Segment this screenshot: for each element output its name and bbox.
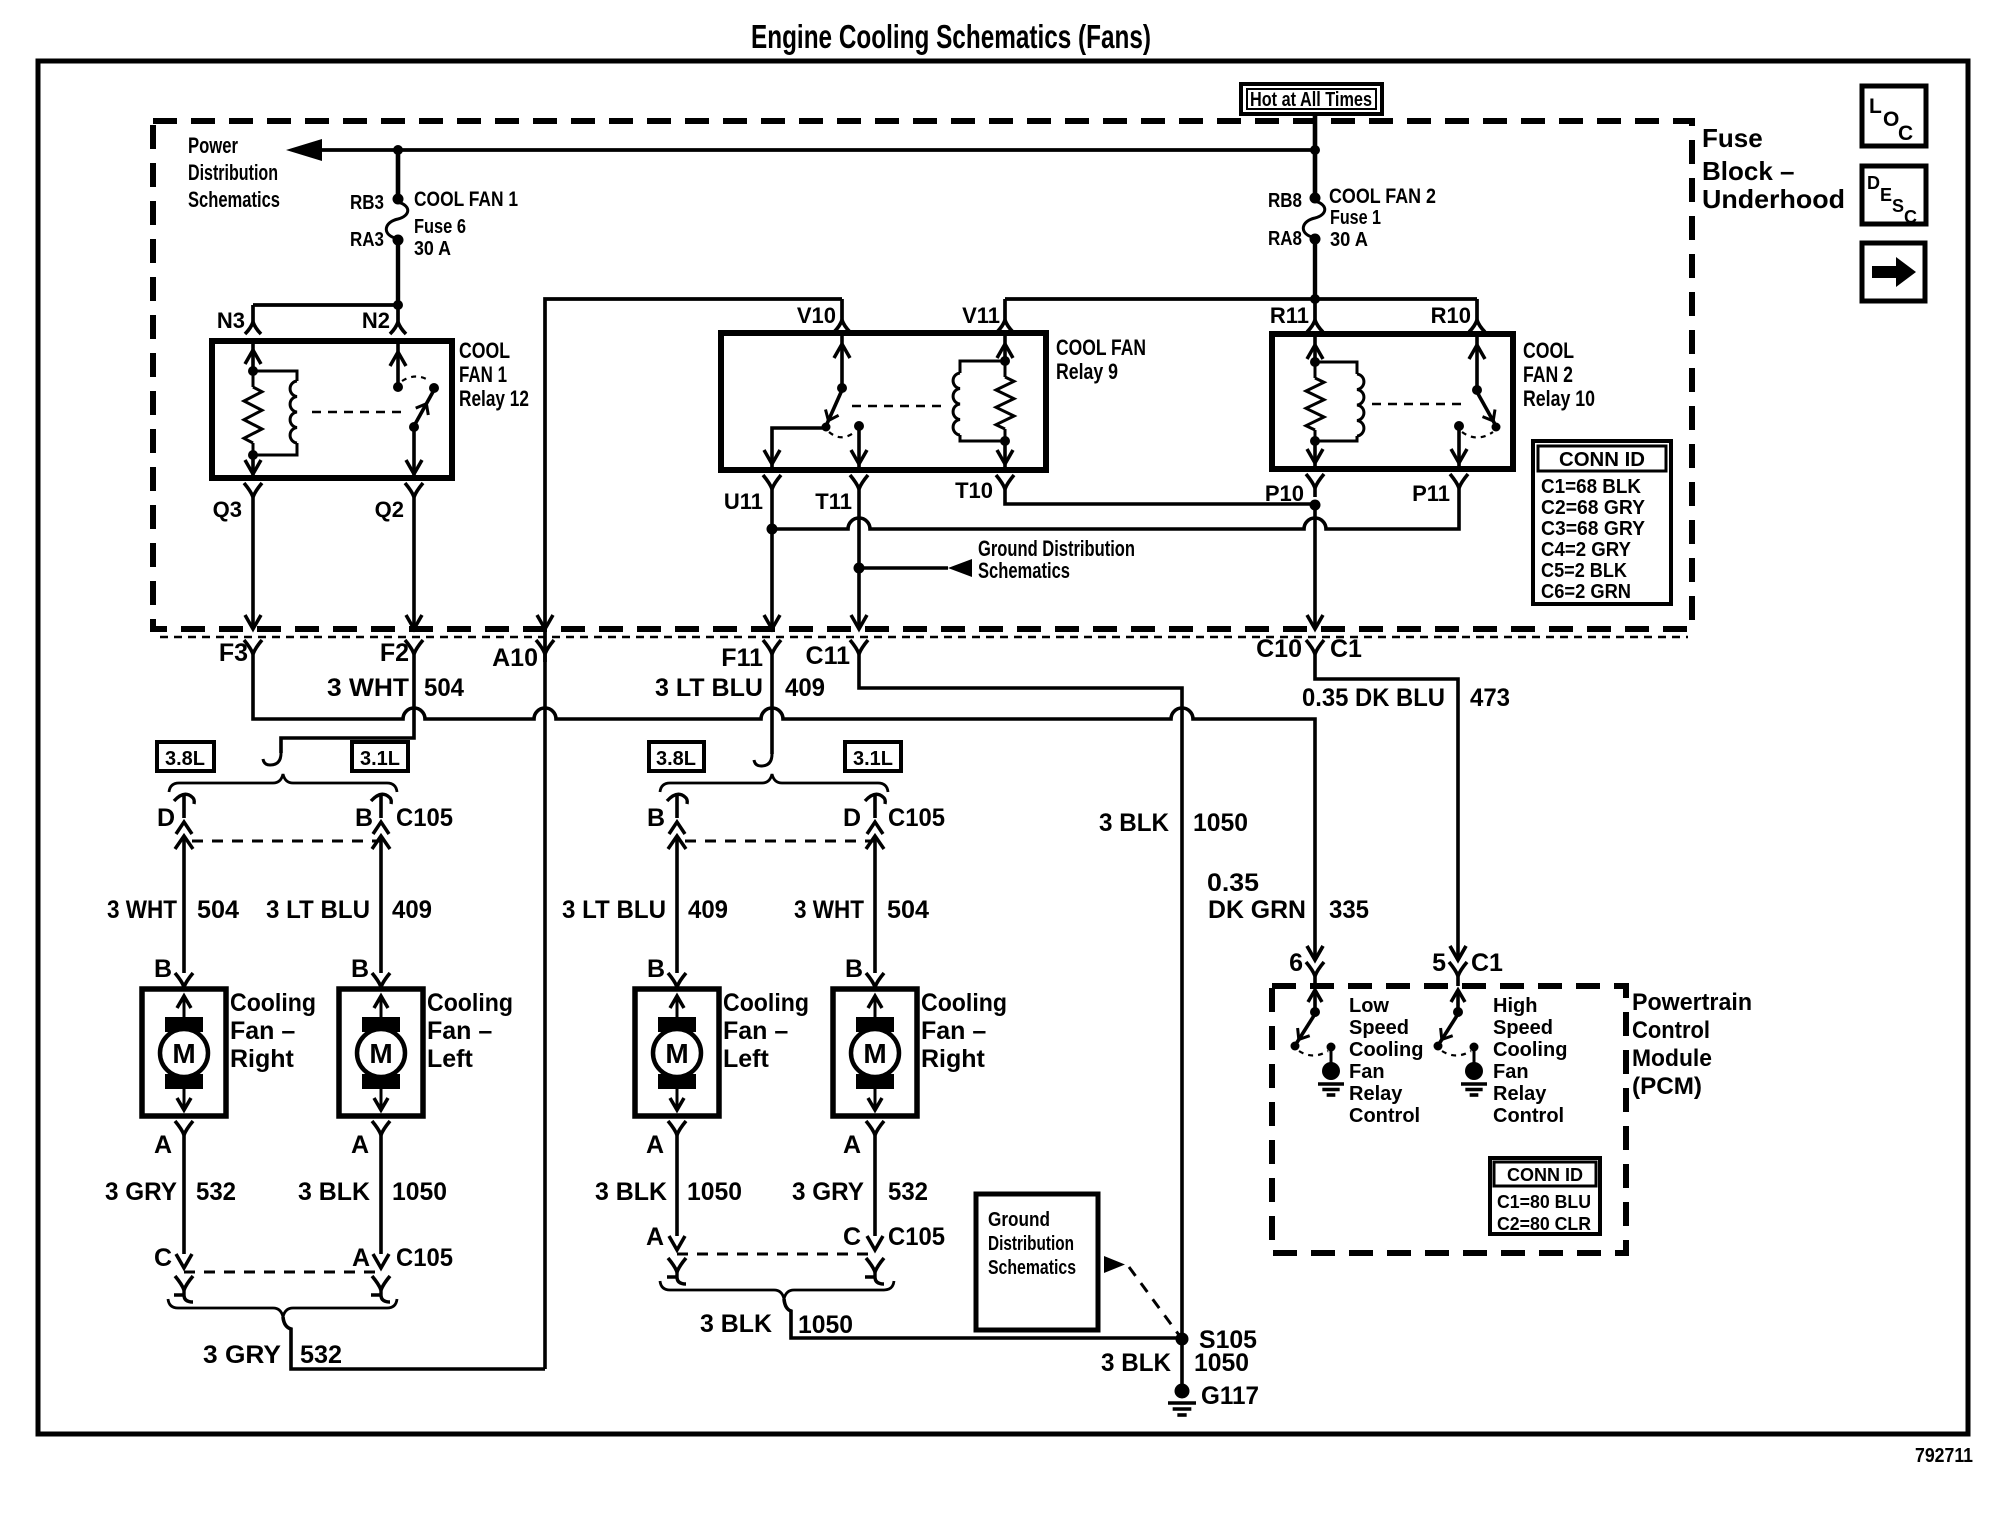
motor M Cooling Fan - Right (x=875): [833, 989, 917, 1116]
svg-text:A: A: [352, 1244, 370, 1272]
wire U11 to P11 with hops over T11 and P10: [772, 497, 1459, 529]
relay 12 switch NO contact: [429, 383, 439, 393]
svg-text:Distribution: Distribution: [988, 1233, 1074, 1255]
wire motor2 A down to C105 A: [379, 1139, 383, 1254]
relay 12 resistor: [252, 371, 255, 387]
svg-text:3 LT BLU: 3 LT BLU: [655, 674, 763, 702]
splice hook (F2 branch): [263, 753, 281, 765]
wire F2 to engine splice branch: [281, 662, 414, 753]
svg-text:532: 532: [196, 1178, 236, 1206]
svg-text:532: 532: [300, 1341, 342, 1369]
svg-text:3 GRY: 3 GRY: [203, 1341, 281, 1369]
splice brace (lower left group): [168, 1299, 397, 1317]
relay 9 resistor: [1004, 361, 1007, 377]
relay 9 coil: [960, 361, 1005, 373]
wire Q3 down to F3: [251, 503, 255, 629]
pin Q3: [244, 483, 262, 497]
wire stubs to relay top pins: [840, 299, 844, 320]
wire motor3 A down to C105 A: [675, 1139, 679, 1236]
svg-text:C105: C105: [396, 804, 453, 832]
pin U11: [763, 475, 781, 489]
PCM low speed fan relay control switch: [1308, 990, 1322, 1002]
motor M Cooling Fan - Right (x=184): [142, 989, 226, 1116]
svg-text:A: A: [843, 1131, 861, 1159]
connector C105 pin D (right group): [865, 794, 885, 804]
svg-text:Schematics: Schematics: [188, 187, 280, 212]
wire C105 B to left fan motor B (col 3): [675, 836, 679, 973]
svg-text:P11: P11: [1412, 481, 1450, 506]
relay 12 coil: [253, 371, 297, 381]
svg-text:3 GRY: 3 GRY: [792, 1178, 864, 1206]
svg-text:C10: C10: [1256, 635, 1302, 663]
svg-text:Block –: Block –: [1702, 156, 1795, 186]
svg-text:R11: R11: [1270, 303, 1309, 328]
pin N3: [245, 322, 261, 334]
svg-text:T11: T11: [815, 489, 852, 514]
wire C105 B to left fan motor B: [379, 836, 383, 973]
svg-text:1050: 1050: [687, 1178, 742, 1206]
svg-text:N3: N3: [217, 308, 245, 333]
pin T10: [996, 475, 1014, 489]
relay 12 coil branch input arrow: [251, 341, 255, 371]
relay 9 coil output arrow to T10: [1003, 441, 1007, 470]
ground control bus: F3 to PCM pin 6 with hops at F2, A10, F11, splice column: [253, 662, 1315, 960]
connector C105 pin D (left group): [174, 794, 194, 804]
connector pin C11: [850, 640, 868, 654]
svg-text:F3: F3: [219, 639, 248, 667]
engine option brace (left group): [169, 774, 397, 792]
relay 10 switch travel arc (dashed): [1462, 432, 1493, 438]
svg-text:Low: Low: [1349, 995, 1389, 1017]
svg-text:Left: Left: [723, 1045, 770, 1073]
relay 12 coil-switch link (dashed): [312, 411, 404, 413]
relay 12 coil top junction: [248, 366, 258, 376]
svg-text:O: O: [1883, 108, 1899, 131]
svg-text:FAN 1: FAN 1: [459, 362, 507, 387]
svg-text:504: 504: [887, 896, 929, 924]
relay 10 coil input from R11: [1313, 334, 1317, 362]
svg-text:C105: C105: [396, 1244, 453, 1272]
svg-text:CONN ID: CONN ID: [1559, 449, 1645, 471]
relay 9 switch NC contact: [854, 421, 864, 431]
svg-text:3.1L: 3.1L: [853, 748, 893, 770]
fuse block connector C1 boundary (thin dashed): [160, 636, 1688, 638]
svg-text:RB3: RB3: [350, 192, 384, 214]
svg-text:Fan –: Fan –: [921, 1017, 986, 1045]
svg-text:Schematics: Schematics: [978, 558, 1070, 583]
svg-text:CONN ID: CONN ID: [1507, 1165, 1583, 1185]
svg-text:High: High: [1493, 995, 1537, 1017]
svg-text:A: A: [646, 1131, 664, 1159]
svg-text:3 BLK: 3 BLK: [1099, 809, 1169, 837]
svg-text:Relay 10: Relay 10: [1523, 386, 1595, 411]
wire A10 column down to splice return: [543, 662, 547, 1369]
svg-text:C2=68 GRY: C2=68 GRY: [1541, 497, 1646, 519]
svg-text:D: D: [1867, 173, 1880, 193]
svg-text:Fuse: Fuse: [1702, 123, 1763, 153]
svg-text:0.35: 0.35: [1207, 869, 1259, 897]
relay 12 switch pivot: [409, 422, 419, 432]
junction T10/P10: [1310, 500, 1321, 511]
svg-text:FAN 2: FAN 2: [1523, 362, 1573, 387]
wire motor4 A down to C105 C: [873, 1139, 877, 1236]
connector C105 interface (left, dashed): [192, 840, 381, 843]
relay 9 switch blade: [826, 390, 842, 426]
wire C105 D to right fan motor B: [182, 836, 186, 973]
pin P10: [1306, 474, 1324, 488]
relay 9 coil input from V11: [1003, 333, 1007, 361]
svg-text:Cooling: Cooling: [1493, 1039, 1567, 1061]
svg-text:Relay 9: Relay 9: [1056, 359, 1118, 384]
connector pin A10: [536, 640, 554, 654]
svg-text:M: M: [172, 1038, 195, 1069]
svg-text:Left: Left: [427, 1045, 474, 1073]
splice hook (F11 branch): [754, 754, 772, 766]
svg-text:Relay: Relay: [1493, 1083, 1547, 1105]
junction at relay rail: [1310, 294, 1320, 304]
svg-text:Fuse 1: Fuse 1: [1330, 207, 1381, 229]
svg-text:Control: Control: [1493, 1105, 1564, 1127]
svg-text:S: S: [1892, 196, 1904, 216]
wire splice to A10 column 3 GRY 532: [283, 1317, 545, 1369]
lower left C105 outgoing forks: [175, 1276, 193, 1290]
svg-text:(PCM): (PCM): [1632, 1073, 1702, 1100]
wire rail V11 to R10: [1005, 297, 1477, 301]
svg-text:M: M: [369, 1038, 392, 1069]
connector pin F3: [244, 640, 262, 654]
connector C105 pin A (lower left group): [373, 1254, 389, 1268]
svg-text:409: 409: [392, 896, 432, 924]
motor M Cooling Fan - Left (x=677): [635, 989, 719, 1116]
wire rail A10 riser to V10: [545, 299, 842, 662]
relay 10 switch common from R10: [1475, 334, 1479, 390]
svg-text:1050: 1050: [798, 1311, 853, 1339]
svg-text:D: D: [843, 804, 861, 832]
wire C11 to S105 splice column 3 BLK 1050: [859, 662, 1182, 1385]
LOC legend box: [1862, 86, 1926, 146]
svg-text:C11: C11: [806, 642, 851, 670]
wire T11 down to C11: [857, 497, 861, 629]
svg-text:B: B: [355, 804, 373, 832]
relay 9 switch output to U11: [772, 428, 826, 470]
svg-text:COOL: COOL: [1523, 338, 1574, 363]
connector pin F11: [763, 640, 781, 654]
svg-text:Q2: Q2: [375, 497, 404, 522]
svg-text:A: A: [646, 1223, 664, 1251]
svg-text:Fan –: Fan –: [723, 1017, 788, 1045]
svg-text:Fuse 6: Fuse 6: [414, 216, 466, 238]
engine option label 3.1L (right): [845, 742, 901, 771]
relay 10 coil output arrow to P10: [1313, 441, 1317, 469]
relay 10 resistor: [1314, 362, 1317, 378]
svg-text:Cooling: Cooling: [723, 989, 809, 1017]
svg-text:RA8: RA8: [1268, 228, 1302, 250]
svg-text:F2: F2: [380, 639, 409, 667]
svg-text:532: 532: [888, 1178, 928, 1206]
svg-text:335: 335: [1329, 896, 1369, 924]
svg-text:3 GRY: 3 GRY: [105, 1178, 177, 1206]
splice S105: [1176, 1333, 1189, 1346]
PCM pin 6: [1307, 946, 1323, 960]
relay K12 COOL FAN 1 Relay 12 box: [212, 341, 452, 478]
CONN ID table for fuse block: [1533, 441, 1671, 604]
fuse block - underhood dashed boundary: [153, 121, 1692, 629]
svg-text:C1=80 BLU: C1=80 BLU: [1497, 1192, 1591, 1212]
relay 12 switch output arrow to Q2: [412, 427, 416, 478]
relay 9 coil bottom junction: [1000, 436, 1010, 446]
off-page arrow from ground distribution box: [1104, 1256, 1125, 1273]
svg-text:Relay: Relay: [1349, 1083, 1403, 1105]
relay 12 coil bottom junction: [248, 450, 258, 460]
svg-text:A: A: [154, 1131, 172, 1159]
wire splice to S105 3 BLK 1050: [784, 1299, 1182, 1338]
svg-text:C4=2 GRY: C4=2 GRY: [1541, 539, 1632, 561]
connector C105 pin C (lower right group): [867, 1236, 883, 1250]
svg-text:1050: 1050: [392, 1178, 447, 1206]
svg-text:Fan –: Fan –: [427, 1017, 492, 1045]
connector C105 interface (lower right, dashed): [677, 1253, 875, 1256]
svg-text:M: M: [863, 1038, 886, 1069]
junction T11 ground-distribution tap: [854, 563, 865, 574]
svg-text:409: 409: [688, 896, 728, 924]
svg-text:Cooling: Cooling: [230, 989, 316, 1017]
relay 9 coil top junction: [1000, 356, 1010, 366]
wire C10 to PCM pin 5 0.35 DK BLU 473: [1315, 662, 1458, 960]
svg-text:U11: U11: [724, 489, 763, 514]
engine option brace (right group): [660, 774, 888, 792]
relay 10 switch blade: [1477, 392, 1496, 426]
pin Q2: [405, 483, 423, 497]
relay 10 coil-switch link (dashed): [1372, 403, 1468, 405]
splice brace (lower right group): [660, 1281, 894, 1299]
svg-text:Control: Control: [1632, 1017, 1710, 1044]
svg-text:Fan –: Fan –: [230, 1017, 295, 1045]
CONN ID table for PCM: [1490, 1158, 1600, 1234]
svg-text:B: B: [647, 804, 665, 832]
relay K10 COOL FAN 2 Relay 10 box: [1272, 334, 1513, 469]
svg-text:473: 473: [1470, 684, 1510, 712]
svg-text:COOL FAN 2: COOL FAN 2: [1329, 185, 1436, 208]
wire fuse 6 to relay 12 pins N3/N2: [396, 240, 400, 305]
pin R10: [1469, 320, 1485, 332]
relay 9 switch travel arc (dashed): [829, 431, 856, 437]
svg-text:6: 6: [1289, 949, 1303, 977]
svg-text:T10: T10: [955, 478, 993, 503]
PCM pin 5: [1450, 946, 1466, 960]
svg-text:Schematics: Schematics: [988, 1257, 1076, 1279]
svg-text:Module: Module: [1632, 1045, 1712, 1072]
connector C105 pin C (lower left group): [176, 1254, 192, 1268]
svg-text:Right: Right: [921, 1045, 986, 1073]
svg-text:C1: C1: [1471, 949, 1503, 977]
svg-text:Q3: Q3: [213, 497, 242, 522]
svg-text:D: D: [157, 804, 175, 832]
power rail wire to fuses and off-page arrow: [316, 148, 1315, 152]
svg-text:C6=2 GRN: C6=2 GRN: [1541, 581, 1631, 603]
wire C105 D to right fan motor B (col 4): [873, 836, 877, 973]
svg-text:3 WHT: 3 WHT: [327, 674, 409, 702]
svg-text:Hot at All Times: Hot at All Times: [1250, 89, 1372, 111]
pin T11: [850, 475, 868, 489]
svg-text:C: C: [843, 1223, 861, 1251]
junction U11: [767, 524, 778, 535]
svg-text:V10: V10: [797, 303, 836, 328]
svg-text:Speed: Speed: [1349, 1017, 1409, 1039]
svg-text:E: E: [1880, 185, 1892, 205]
svg-text:DK GRN: DK GRN: [1208, 896, 1306, 924]
svg-text:Engine Cooling Schematics (Fan: Engine Cooling Schematics (Fans): [751, 18, 1151, 55]
wire P10 down to C10: [1313, 505, 1317, 629]
fuse F1 COOL FAN 2 30 A: [1313, 150, 1318, 197]
svg-text:Speed: Speed: [1493, 1017, 1553, 1039]
svg-text:COOL FAN: COOL FAN: [1056, 335, 1146, 360]
svg-text:504: 504: [424, 674, 464, 702]
svg-text:3 BLK: 3 BLK: [1101, 1349, 1171, 1377]
connector pin F2: [405, 640, 423, 654]
relay 12 switch travel arc (dashed): [402, 377, 430, 382]
dashed leader to S105: [1129, 1267, 1179, 1335]
wire A10 riser arrow at connector: [537, 615, 553, 629]
wire U11 down to F11: [770, 497, 774, 629]
junction at fuse 6 feed: [393, 145, 403, 155]
svg-text:C2=80 CLR: C2=80 CLR: [1497, 1214, 1591, 1234]
relay 10 coil: [1315, 362, 1357, 374]
svg-text:COOL: COOL: [459, 338, 510, 363]
svg-text:RB8: RB8: [1268, 190, 1302, 212]
svg-text:Cooling: Cooling: [427, 989, 513, 1017]
svg-text:C: C: [154, 1244, 172, 1272]
pin R11: [1307, 320, 1323, 332]
connector C105 pin A (lower right group): [669, 1236, 685, 1250]
svg-text:C3=68 GRY: C3=68 GRY: [1541, 518, 1646, 540]
svg-text:1050: 1050: [1193, 809, 1248, 837]
fuse F6 COOL FAN 1 30 A: [396, 150, 401, 198]
svg-text:Cooling: Cooling: [1349, 1039, 1423, 1061]
svg-text:Relay 12: Relay 12: [459, 386, 529, 411]
pin N2: [390, 322, 406, 334]
svg-text:0.35 DK BLU: 0.35 DK BLU: [1302, 684, 1445, 712]
svg-text:Right: Right: [230, 1045, 295, 1073]
svg-text:30 A: 30 A: [1330, 229, 1368, 251]
relay 10 switch NC contact: [1454, 421, 1464, 431]
svg-text:C: C: [1904, 207, 1917, 227]
wire hot feed from Hot at All Times down to power rail: [1313, 114, 1318, 150]
relay 10 NC contact output to P11: [1457, 428, 1461, 469]
svg-text:3 BLK: 3 BLK: [298, 1178, 370, 1206]
svg-text:Fan: Fan: [1349, 1061, 1385, 1083]
relay 10 switch blade end: [1492, 423, 1501, 432]
svg-text:L: L: [1869, 95, 1882, 118]
DESC legend box: [1862, 166, 1926, 224]
node Hot at All Times: [1241, 84, 1382, 114]
wire motor1 A down to C105 C: [182, 1139, 186, 1254]
relay 10 coil top junction: [1310, 357, 1320, 367]
relay K9 COOL FAN Relay 9 box: [721, 333, 1046, 470]
svg-text:504: 504: [197, 896, 239, 924]
svg-text:3.8L: 3.8L: [165, 748, 205, 770]
relay 9 NC contact output to T11: [857, 428, 861, 470]
PCM high speed fan relay control switch: [1451, 990, 1465, 1002]
connector pin C10 with connector name C1: [1306, 640, 1324, 654]
svg-text:3 LT BLU: 3 LT BLU: [266, 896, 370, 924]
svg-text:R10: R10: [1431, 303, 1471, 328]
svg-text:Cooling: Cooling: [921, 989, 1007, 1017]
wire F11 to engine splice branch: [770, 662, 774, 754]
next-page arrow legend box: [1862, 243, 1925, 301]
connector C105 pin B (right group): [667, 794, 687, 804]
pin P11: [1450, 474, 1468, 488]
svg-text:3 LT BLU: 3 LT BLU: [562, 896, 666, 924]
svg-text:Fan: Fan: [1493, 1061, 1529, 1083]
pin V10: [834, 320, 850, 332]
engine option label 3.1L (left): [352, 742, 408, 771]
svg-text:B: B: [154, 955, 172, 983]
pin V11: [997, 320, 1013, 332]
relay 10 coil bottom junction: [1310, 436, 1320, 446]
relay 12 coil output arrow to Q3: [251, 455, 255, 478]
svg-text:B: B: [845, 955, 863, 983]
wire T10 to P10 jog: [1005, 497, 1315, 504]
wire Q2 down to F2: [412, 503, 416, 629]
relay 12 switch blade: [414, 390, 434, 426]
svg-text:V11: V11: [962, 303, 1000, 328]
connector C105 interface (lower left, dashed): [184, 1271, 381, 1274]
svg-text:Distribution: Distribution: [188, 160, 278, 185]
connector C105 pin B (left group): [371, 794, 391, 804]
svg-text:A: A: [351, 1131, 369, 1159]
svg-text:Underhood: Underhood: [1702, 184, 1845, 214]
svg-text:Control: Control: [1349, 1105, 1420, 1127]
engine option label 3.8L (right): [649, 742, 704, 771]
svg-text:C5=2 BLK: C5=2 BLK: [1541, 560, 1628, 582]
svg-text:3 BLK: 3 BLK: [595, 1178, 667, 1206]
svg-text:B: B: [647, 955, 665, 983]
svg-text:792711: 792711: [1915, 1445, 1973, 1467]
Powertrain Control Module dashed boundary: [1272, 986, 1626, 1253]
svg-text:B: B: [351, 955, 369, 983]
svg-text:5: 5: [1432, 949, 1446, 977]
svg-text:G117: G117: [1201, 1382, 1259, 1410]
off-page arrow to Power Distribution Schematics: [286, 139, 322, 161]
wire fuse 1 down to relay rail: [1313, 239, 1317, 299]
relay 9 coil-switch link (dashed): [852, 405, 948, 407]
svg-text:C105: C105: [888, 1223, 945, 1251]
svg-text:3 BLK: 3 BLK: [700, 1310, 772, 1338]
svg-text:1050: 1050: [1194, 1349, 1249, 1377]
relay 12 switch common from N2: [396, 341, 400, 387]
svg-text:M: M: [665, 1038, 688, 1069]
svg-text:Ground: Ground: [988, 1209, 1050, 1231]
svg-text:3 WHT: 3 WHT: [794, 896, 864, 924]
svg-text:F11: F11: [721, 644, 763, 672]
svg-text:409: 409: [785, 674, 825, 702]
engine option label 3.8L (left): [157, 742, 214, 771]
relay 9 switch blade end: [822, 423, 831, 432]
svg-text:N2: N2: [362, 308, 390, 333]
relay 9 switch common from V10: [840, 333, 844, 388]
off-page arrow to Ground Distribution Schematics: [859, 566, 948, 570]
svg-text:COOL FAN 1: COOL FAN 1: [414, 188, 518, 211]
svg-text:Power: Power: [188, 133, 238, 158]
lower right C105 outgoing forks: [668, 1258, 686, 1272]
connector C105 interface (right, dashed): [685, 840, 875, 843]
Ground Distribution Schematics reference box: [976, 1194, 1098, 1330]
ground G117: [1175, 1384, 1190, 1399]
svg-text:Powertrain: Powertrain: [1632, 989, 1752, 1016]
motor M Cooling Fan - Left (x=381): [339, 989, 423, 1116]
svg-text:C1: C1: [1330, 635, 1362, 663]
svg-text:C: C: [1898, 122, 1913, 145]
